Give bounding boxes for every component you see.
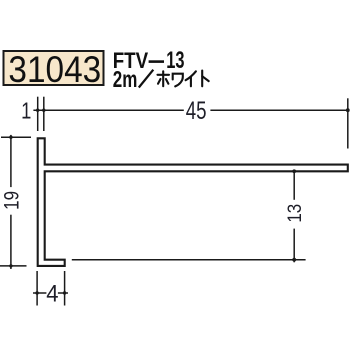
dimension 13 label — [283, 204, 305, 223]
dimension 19 tick dots — [9, 136, 12, 268]
dimension 4 left extension line — [36, 271, 38, 306]
spec label katakana HO — [158, 71, 170, 86]
dimension 1 right extension line — [43, 97, 45, 131]
spec label slash — [139, 70, 154, 88]
svg-text:2m: 2m — [113, 68, 138, 93]
svg-text:1: 1 — [21, 99, 31, 124]
spec label katakana WA — [173, 74, 183, 87]
dimension 1 label — [21, 99, 31, 124]
dimension 19 line lower segment — [10, 215, 12, 269]
svg-text:31043: 31043 — [8, 48, 101, 90]
svg-text:4: 4 — [46, 280, 59, 307]
dimension 1 tick dots — [36, 109, 46, 112]
dimension 19 label — [1, 191, 24, 210]
svg-text:45: 45 — [186, 96, 207, 124]
dimension 19 bottom extension line — [0, 265, 27, 267]
dimension 13 line upper segment — [293, 171, 295, 200]
dimension 19 line upper segment — [10, 135, 12, 187]
spec label 2m — [113, 68, 138, 93]
dimension 4 line right segment — [58, 292, 68, 294]
dimension line for 45 right segment — [210, 109, 347, 111]
spec label katakana I — [186, 71, 196, 86]
dimension 1 left extension line — [37, 97, 39, 131]
svg-text:13: 13 — [283, 204, 305, 223]
dimension 13 line lower segment — [293, 229, 295, 263]
dimension 4 line left segment — [33, 292, 46, 294]
dimension 45 label — [186, 96, 207, 124]
dimension line for 1 and 45 left segment — [33, 109, 183, 111]
svg-text:19: 19 — [1, 191, 24, 210]
part number 31043 — [8, 48, 101, 90]
svg-text:13: 13 — [166, 47, 184, 74]
model label dash — [149, 60, 164, 63]
dimension 45 right extension line — [347, 98, 349, 148]
dimension 13 tick dots — [292, 169, 296, 261]
dimension 4 tick dots — [35, 291, 66, 294]
dimension 4 right extension line — [64, 271, 66, 306]
dimension 4 label — [46, 280, 59, 307]
dimension 13 bottom extension line — [72, 259, 306, 261]
part number box — [4, 51, 104, 85]
spec label katakana TO — [202, 71, 209, 87]
model label FTV — [113, 48, 149, 73]
model label 13 — [166, 47, 184, 74]
dimension 45 tick dot — [346, 108, 350, 112]
profile outline — [38, 138, 348, 266]
dimension 19 top extension line — [1, 136, 31, 138]
